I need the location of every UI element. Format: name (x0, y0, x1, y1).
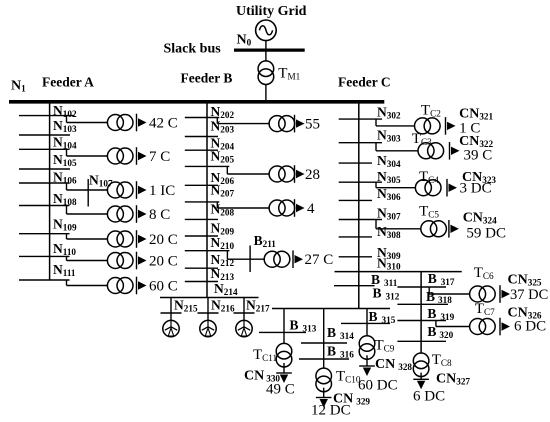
transformer TC9 (359, 336, 375, 352)
bus B313-B315 (272, 308, 390, 310)
svg-text:1 IC: 1 IC (149, 183, 175, 199)
load arrow 20 C (136, 230, 138, 248)
svg-text:39 C: 39 C (464, 148, 493, 164)
svg-text:6 DC: 6 DC (413, 389, 445, 405)
load arrow 20 C (136, 252, 138, 270)
transformer TC5 (421, 221, 437, 237)
tick feeder A y169.0 (19, 168, 70, 170)
tick feeder B y250.7 (185, 250, 230, 252)
wire drop to DG N216 (207, 298, 209, 321)
tick B320 end (397, 340, 446, 342)
tick feeder C y219.5 (339, 219, 382, 221)
wire branch 20 C feeder A (67, 256, 108, 260)
svg-text:59 DC: 59 DC (466, 226, 506, 242)
tick feeder B y281.5 (185, 281, 218, 283)
load arrow CN328 (359, 365, 375, 367)
svg-text:20 C: 20 C (149, 232, 178, 248)
tick feeder B y185.3 (185, 184, 218, 186)
load arrow 3 DC (446, 179, 448, 197)
transformer load 8 C (107, 206, 123, 222)
AC source utility grid G1 (256, 20, 277, 41)
svg-text:60 DC: 60 DC (358, 378, 398, 394)
tick feeder A y149.3 (19, 148, 70, 150)
wire branch 3 DC feeder C (376, 182, 415, 188)
svg-text:Slack bus: Slack bus (164, 42, 222, 57)
transformer load 4 (269, 200, 285, 216)
transformer TC11 (276, 343, 292, 359)
svg-text:28: 28 (305, 167, 320, 183)
svg-text:Feeder B: Feeder B (181, 71, 233, 86)
tick feeder A y233.7 (19, 233, 70, 235)
svg-text:60 C: 60 C (149, 279, 178, 295)
wire source to slack bus (265, 41, 267, 49)
tick feeder B y150.2 (185, 149, 218, 151)
wire branch 20 C feeder A (67, 234, 108, 239)
transformer load 27 C (264, 251, 280, 267)
tick DG N217 (234, 312, 255, 314)
wind turbine DG at N216 (200, 320, 216, 336)
load arrow 42 C (136, 114, 138, 132)
wire branch B318 to TC6 (429, 287, 469, 294)
tick feeder B y136.5 (185, 136, 218, 138)
tick feeder B y166.4 (185, 165, 230, 167)
transformer TC8 (413, 353, 429, 369)
main bus N1 (9, 100, 384, 104)
wire branch 60 C feeder A (67, 280, 108, 286)
transformer TC10 (316, 368, 332, 384)
tick feeder A y183.0 (19, 182, 70, 184)
tick feeder B y201.9 (185, 201, 220, 203)
load arrow 1 IC (136, 181, 138, 199)
transformer TM1 (258, 61, 274, 77)
feeder line B317 column (420, 272, 422, 354)
transformer load 20 C (107, 253, 123, 269)
tick feeder C y200.4 (339, 199, 372, 201)
transformer load 1 IC (107, 182, 123, 198)
load arrow 28 (294, 165, 296, 183)
tick DG N216 (198, 312, 219, 314)
svg-text:27 C: 27 C (305, 252, 334, 268)
load arrow CN330 (276, 372, 292, 374)
wind turbine DG at N217 (236, 320, 252, 336)
tick feeder A y205.5 (19, 205, 70, 207)
svg-text:37 DC: 37 DC (510, 287, 548, 303)
wire branch B320 to TC7 (436, 321, 470, 327)
svg-text:Feeder C: Feeder C (338, 75, 391, 90)
load arrow 4 (294, 199, 296, 217)
wire branch 55 feeder B (217, 118, 269, 124)
tick feeder A y256.4 (19, 255, 70, 257)
feeder B line (206, 103, 208, 298)
transformer TC4 (415, 180, 431, 196)
node B211 line (249, 246, 251, 273)
load arrow 55 (294, 115, 296, 133)
tick B317-B318 (397, 286, 446, 288)
transformer load 55 (269, 116, 285, 132)
tick B318-B319 (397, 303, 448, 305)
load arrow CN327 (413, 378, 429, 380)
transformer load 60 C (107, 278, 123, 294)
bus B311 feeder C lower (335, 271, 462, 273)
load arrow 27 C (292, 250, 294, 268)
wire slack bus to TM1 (265, 50, 267, 62)
node N107 line (87, 179, 89, 207)
tick feeder C y256.8 (339, 256, 372, 258)
wire branch 42 C feeder A (67, 116, 108, 123)
wire drop to TC10 (323, 309, 325, 368)
wire branch 1 IC feeder A (67, 183, 108, 190)
svg-text:55: 55 (305, 117, 320, 133)
tick B313 (259, 331, 306, 333)
tick DG N215 (161, 312, 182, 314)
tick B311-B312 (334, 285, 375, 287)
feeder A line (49, 103, 51, 280)
load arrow 1 C (445, 117, 447, 135)
transformer load 28 (269, 166, 285, 182)
wire branch 28 feeder B (227, 166, 269, 174)
feeder C line (358, 103, 360, 309)
transformer load 20 C (107, 231, 123, 247)
wire branch 27 C feeder B (227, 251, 264, 260)
wire drop to TC9 (366, 309, 368, 336)
wire branch 4 feeder B (217, 202, 269, 208)
svg-text:6 DC: 6 DC (514, 319, 546, 335)
wire drop to DG N217 (243, 298, 245, 321)
wire TC11 to load (283, 363, 285, 373)
transformer load 7 C (107, 148, 123, 164)
load arrow CN329 (316, 397, 332, 399)
load arrow 7 C (136, 147, 138, 165)
wire drop to TC11 (283, 309, 285, 344)
wire TC8 to load (420, 373, 422, 380)
wire branch 39 C feeder C (376, 143, 418, 151)
load arrow CN326 (499, 318, 501, 336)
load arrow 39 C (449, 142, 451, 160)
tick feeder B y219.4 (185, 218, 218, 220)
tick feeder B y117.5 (185, 117, 220, 119)
wire TC9 to load (366, 355, 368, 366)
svg-text:7 C: 7 C (149, 149, 170, 165)
svg-text:12 DC: 12 DC (311, 403, 351, 419)
load arrow 8 C (136, 205, 138, 223)
tick feeder A y280.0 (19, 279, 70, 281)
wire branch 59 DC feeder C (376, 220, 421, 229)
slack bus (234, 48, 305, 51)
tick B314 (301, 342, 347, 344)
wire TC10 to load (323, 388, 325, 398)
transformer TC2 (415, 118, 431, 134)
tick B319-B320 (397, 320, 446, 322)
wire branch 1 C feeder C (376, 119, 415, 126)
tick feeder B y236.0 (185, 235, 218, 237)
transformer TC3 (418, 143, 434, 159)
svg-text:4: 4 (307, 201, 315, 217)
bus N214 to DG units (160, 297, 259, 299)
tick feeder B y268.2 (185, 267, 218, 269)
svg-text:42 C: 42 C (149, 116, 178, 132)
load arrow CN325 (499, 285, 501, 303)
load arrow 60 C (136, 277, 138, 295)
tick B315 (341, 322, 390, 324)
svg-text:Feeder A: Feeder A (42, 75, 94, 90)
transformer TC6 (470, 286, 486, 302)
transformer load 42 C (107, 115, 123, 131)
wire branch 8 C feeder A (67, 206, 108, 215)
wire branch 7 C feeder A (67, 149, 108, 156)
svg-text:8 C: 8 C (149, 207, 170, 223)
tick feeder C y119.1 (339, 118, 382, 120)
svg-text:49 C: 49 C (266, 382, 295, 398)
tick feeder C y142.7 (339, 142, 382, 144)
svg-text:3 DC: 3 DC (460, 181, 492, 197)
wind turbine DG at N215 (163, 320, 179, 336)
tick feeder A y135.0 (19, 134, 70, 136)
tick feeder C y182.2 (339, 181, 382, 183)
svg-text:20 C: 20 C (149, 254, 178, 270)
tick feeder A y115.6 (19, 115, 75, 117)
tick B316 (299, 358, 349, 360)
tick feeder C y163.1 (339, 162, 372, 164)
svg-text:Utility Grid: Utility Grid (236, 4, 307, 19)
wire drop to DG N215 (170, 298, 172, 321)
tick feeder C y236.9 (339, 236, 372, 238)
transformer TC7 (470, 319, 486, 335)
wire TM1 to main bus (265, 84, 267, 100)
load arrow 59 DC (448, 220, 450, 238)
